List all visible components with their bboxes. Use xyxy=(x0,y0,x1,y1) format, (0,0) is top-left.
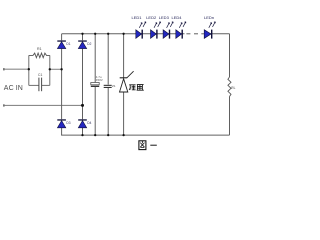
svg-text:R1: R1 xyxy=(37,47,42,51)
svg-text:D1: D1 xyxy=(66,42,70,46)
svg-text:Z1: Z1 xyxy=(112,84,116,88)
svg-text:LED2: LED2 xyxy=(146,15,157,20)
svg-text:RL: RL xyxy=(231,86,235,90)
svg-text:AC IN: AC IN xyxy=(4,85,23,92)
svg-text:LEDn: LEDn xyxy=(204,15,214,20)
svg-text:D3: D3 xyxy=(66,121,70,125)
svg-text:C1: C1 xyxy=(38,73,42,77)
svg-text:LED4: LED4 xyxy=(171,15,182,20)
svg-text:LED1: LED1 xyxy=(131,15,142,20)
svg-text:450V: 450V xyxy=(96,78,103,82)
svg-text:D4: D4 xyxy=(87,121,91,125)
svg-text:D2: D2 xyxy=(87,42,91,46)
svg-text:LED3: LED3 xyxy=(159,15,170,20)
